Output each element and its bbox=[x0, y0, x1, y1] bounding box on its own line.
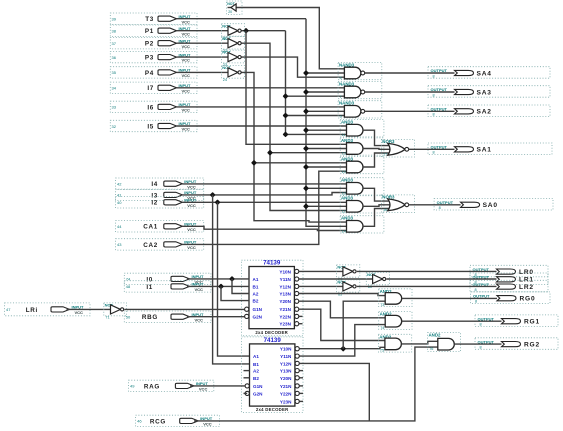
output pin SA0 bbox=[434, 199, 553, 211]
wire inverter V6 out to LR0 pin bbox=[357, 270, 497, 272]
wire I5 to AND2a top bbox=[177, 125, 347, 127]
svg-text:RG2: RG2 bbox=[524, 342, 540, 349]
wire I1 to decoder1 B1 bbox=[187, 285, 249, 287]
stub decoder2 Y22N bbox=[299, 392, 303, 394]
svg-text:Y23N: Y23N bbox=[279, 322, 291, 327]
svg-text:42: 42 bbox=[117, 182, 122, 187]
wire P1 trunk to NAND3 bottom bbox=[286, 115, 345, 117]
input pin I3 bbox=[116, 189, 204, 200]
input pin I4 bbox=[116, 178, 204, 189]
input pin I7 bbox=[110, 82, 197, 93]
output pin RG2 bbox=[475, 338, 558, 350]
svg-text:37: 37 bbox=[112, 41, 117, 46]
svg-text:11: 11 bbox=[342, 133, 346, 137]
svg-text:Y12N: Y12N bbox=[279, 284, 291, 289]
and gate B2 RG1 bbox=[379, 312, 412, 330]
junction trunk AND2d bbox=[303, 185, 309, 191]
svg-text:10: 10 bbox=[342, 191, 346, 195]
svg-text:OUTPUT: OUTPUT bbox=[473, 293, 490, 298]
svg-text:24: 24 bbox=[223, 78, 227, 82]
wire AND2d out to NOR2 top bbox=[363, 188, 389, 201]
svg-text:VCC: VCC bbox=[182, 19, 191, 24]
junction P1 at NAND2 bbox=[283, 93, 289, 99]
and gate A6 bbox=[340, 216, 384, 233]
wire decoder1 Y11N to inverter V7 bbox=[299, 278, 373, 280]
svg-text:2x4 DECODER: 2x4 DECODER bbox=[255, 330, 288, 335]
svg-text:8: 8 bbox=[475, 300, 477, 304]
svg-text:8: 8 bbox=[439, 206, 441, 210]
svg-text:CA2: CA2 bbox=[143, 242, 158, 249]
wire NAND out to SA3 pin bbox=[365, 91, 455, 93]
svg-text:47: 47 bbox=[6, 307, 11, 312]
svg-text:73: 73 bbox=[380, 303, 384, 307]
svg-text:P3: P3 bbox=[145, 55, 154, 62]
svg-text:35: 35 bbox=[112, 70, 117, 75]
svg-text:I3: I3 bbox=[151, 192, 158, 199]
input pin I2 bbox=[116, 197, 204, 208]
svg-text:B2: B2 bbox=[253, 299, 259, 304]
input pin I5 bbox=[110, 120, 197, 131]
svg-text:RAG: RAG bbox=[144, 383, 160, 390]
svg-text:SA4: SA4 bbox=[477, 70, 492, 77]
wire NAND out to SA4 pin bbox=[365, 72, 455, 74]
svg-text:LR2: LR2 bbox=[519, 284, 534, 291]
svg-text:Y22N: Y22N bbox=[280, 391, 292, 396]
svg-text:INPUT: INPUT bbox=[184, 179, 197, 184]
junction trunk AND2e bbox=[303, 203, 309, 209]
wire inverter V7 out to LR1 pin bbox=[387, 278, 497, 280]
svg-text:RG1: RG1 bbox=[524, 319, 540, 326]
output pin SA1 bbox=[428, 143, 552, 155]
trunk branch AND2b mid bbox=[306, 148, 347, 150]
svg-text:Y13N: Y13N bbox=[279, 292, 291, 297]
wire I3 to decoder B1 branch bbox=[182, 193, 346, 195]
wire decoder1 Y10N to inverter V6 bbox=[299, 270, 343, 272]
inverter V6 LR0 bbox=[337, 265, 360, 277]
svg-text:VCC: VCC bbox=[182, 108, 191, 113]
svg-text:76: 76 bbox=[429, 347, 433, 351]
wire P3 inverter out to NAND1 bottom bbox=[242, 57, 345, 77]
svg-text:VCC: VCC bbox=[182, 31, 191, 36]
svg-text:74139: 74139 bbox=[264, 337, 282, 344]
wire NOR2 out to SA0 pin bbox=[409, 204, 461, 206]
svg-text:I0: I0 bbox=[146, 276, 153, 283]
wire AND2c out to NOR1 bottom bbox=[363, 153, 389, 167]
svg-text:5: 5 bbox=[340, 76, 342, 80]
svg-text:VCC: VCC bbox=[199, 387, 208, 392]
nand gate U2 SA3 bbox=[338, 81, 382, 98]
wire AND2b out to NOR1 mid bbox=[363, 148, 391, 151]
stub decoder1 Y22N bbox=[299, 315, 303, 317]
input pin P1 bbox=[110, 25, 197, 36]
svg-text:48: 48 bbox=[126, 284, 131, 289]
input pin T3 bbox=[110, 13, 197, 24]
stub decoder2 G2N bbox=[244, 392, 248, 394]
svg-text:15: 15 bbox=[342, 170, 346, 174]
input pin P4 bbox=[110, 67, 197, 78]
wire decoder1 Y21N to AND2i top bbox=[299, 309, 385, 340]
inverter V4 for P4 bbox=[222, 65, 245, 78]
input pin I1 bbox=[124, 281, 211, 292]
svg-text:46: 46 bbox=[137, 419, 142, 424]
svg-text:VCC: VCC bbox=[203, 422, 212, 427]
trunk branch NAND3 mid bbox=[306, 110, 344, 112]
wire LRi to inverter bbox=[67, 308, 111, 310]
nand gate U3 SA2 bbox=[338, 101, 382, 118]
output pin SA2 bbox=[428, 105, 550, 117]
and gate A5 bbox=[340, 196, 384, 213]
wire I7 to NAND2 top bbox=[177, 87, 345, 89]
svg-text:16: 16 bbox=[383, 208, 387, 212]
svg-text:36: 36 bbox=[112, 55, 117, 60]
svg-text:Y22N: Y22N bbox=[279, 314, 291, 319]
wire decoder2 Y12N down to RCG line bbox=[299, 363, 369, 421]
and gate B3 RG2 bbox=[378, 334, 411, 352]
svg-text:13: 13 bbox=[342, 152, 346, 156]
svg-text:Y12N: Y12N bbox=[280, 361, 292, 366]
decoder U11 74139 lower bbox=[242, 337, 304, 413]
svg-text:SA3: SA3 bbox=[477, 89, 492, 96]
wire RAG to decoder2 G1N bbox=[190, 385, 245, 387]
svg-text:Y21N: Y21N bbox=[279, 307, 291, 312]
nand gate U1 SA4 bbox=[338, 62, 382, 79]
wire decoder2 Y10N to AND2i bottom bbox=[299, 347, 385, 348]
svg-text:20: 20 bbox=[228, 10, 232, 14]
wire I4 to AND2d top bbox=[182, 183, 346, 185]
junction I0 bbox=[229, 276, 235, 282]
wire decoder1 Y13N to AND2g top bbox=[299, 294, 385, 296]
junction trunk NAND3 bbox=[303, 108, 309, 114]
input pin RCG bbox=[136, 415, 220, 426]
wire P4 to inverter bbox=[177, 71, 229, 73]
stub decoder2 A2 bbox=[244, 370, 250, 372]
svg-text:RBG: RBG bbox=[142, 314, 158, 321]
svg-text:VCC: VCC bbox=[182, 88, 191, 93]
svg-text:Y20N: Y20N bbox=[279, 299, 291, 304]
svg-text:8: 8 bbox=[433, 93, 435, 97]
wire NAND out to SA2 pin bbox=[365, 110, 455, 112]
wire P1 trunk to NAND2 bottom bbox=[286, 95, 345, 97]
svg-text:VCC: VCC bbox=[187, 227, 196, 232]
svg-text:SA0: SA0 bbox=[483, 202, 498, 209]
svg-text:14: 14 bbox=[342, 229, 346, 233]
inverter V0 top left-pointing bbox=[227, 1, 243, 15]
svg-text:A2: A2 bbox=[253, 292, 259, 297]
wire decoder1 Y12N to inverter V8 bbox=[299, 285, 343, 287]
svg-text:Y10N: Y10N bbox=[280, 347, 292, 352]
svg-text:I6: I6 bbox=[147, 104, 154, 111]
wire top inverter output stub bbox=[228, 7, 231, 9]
nor gate N1 SA1 bbox=[381, 139, 414, 157]
svg-text:75: 75 bbox=[380, 349, 384, 353]
stub decoder2 Y13N bbox=[299, 370, 303, 372]
wire RBG to decoder1 G2N bbox=[187, 316, 245, 318]
svg-text:SA2: SA2 bbox=[477, 109, 492, 116]
input pin RBG bbox=[124, 311, 211, 322]
svg-text:38: 38 bbox=[112, 29, 117, 34]
svg-text:2x4 DECODER: 2x4 DECODER bbox=[256, 407, 289, 412]
wire CA2 to AND2c bottom bbox=[182, 171, 347, 244]
svg-text:B2: B2 bbox=[253, 376, 259, 381]
wire I2 to AND2e top bbox=[182, 201, 346, 203]
svg-text:33: 33 bbox=[112, 105, 117, 110]
wire P1 branch vertical to AND2b top bbox=[246, 31, 347, 145]
trunk branch AND2e mid bbox=[306, 205, 347, 207]
input pin CA1 bbox=[116, 221, 204, 232]
wire AND2j out to RG2 pin bbox=[454, 343, 501, 345]
trunk branch AND2a mid bbox=[306, 129, 347, 131]
and gate B4 RG2 bbox=[428, 333, 461, 352]
svg-text:VCC: VCC bbox=[187, 184, 196, 189]
svg-text:VCC: VCC bbox=[182, 73, 191, 78]
wire P2 trunk to AND2b bottom bbox=[270, 152, 347, 154]
wire P2 inverter out and trunk bbox=[242, 43, 347, 210]
output pin RG0 bbox=[471, 292, 551, 304]
and gate A2 bbox=[340, 138, 384, 155]
svg-text:I5: I5 bbox=[147, 123, 154, 130]
and gate A4 bbox=[340, 178, 384, 195]
output pin LR1 bbox=[470, 273, 548, 285]
svg-text:50: 50 bbox=[126, 315, 131, 320]
wire LRi inverter out to decoder1 G1N bbox=[124, 308, 244, 310]
svg-text:I7: I7 bbox=[147, 85, 154, 92]
wire RCG to AND2 RG2 second input bbox=[194, 347, 438, 421]
junction trunk NAND2 bbox=[303, 89, 309, 95]
output pin LR2 bbox=[470, 280, 548, 292]
junction P4 at AND2c bbox=[251, 160, 257, 166]
wire P3 to inverter bbox=[177, 56, 229, 58]
wire top inverter input from right bbox=[236, 8, 344, 69]
svg-text:Y21N: Y21N bbox=[280, 384, 292, 389]
input pin RAG bbox=[129, 380, 214, 391]
svg-text:Y10N: Y10N bbox=[279, 269, 291, 274]
svg-text:8: 8 bbox=[480, 323, 482, 327]
inverter V8 LR2 bbox=[337, 280, 360, 292]
wire I0 to decoder1 A1 bbox=[187, 278, 249, 280]
stub decoder2 Y21N bbox=[299, 385, 303, 387]
wire P1 inverter out to trunk bbox=[242, 30, 286, 32]
junction Y10N branch bbox=[340, 346, 346, 352]
wire Y10N branch up to AND2g bottom bbox=[343, 301, 385, 349]
svg-text:A2: A2 bbox=[253, 369, 259, 374]
inverter V1 for P1 bbox=[222, 24, 245, 37]
trunk T3 vertical bbox=[306, 19, 347, 227]
svg-text:34: 34 bbox=[112, 86, 117, 91]
svg-text:VCC: VCC bbox=[195, 287, 204, 292]
svg-text:CA1: CA1 bbox=[143, 224, 158, 231]
svg-text:P2: P2 bbox=[145, 41, 154, 48]
trunk branch AND2c mid bbox=[306, 166, 347, 168]
junction P1 at NAND3 bbox=[283, 113, 289, 119]
wire P2 to inverter bbox=[177, 42, 229, 44]
junction P1 branch bbox=[243, 28, 249, 34]
svg-text:Y20N: Y20N bbox=[280, 376, 292, 381]
svg-text:P4: P4 bbox=[145, 70, 154, 77]
trunk branch NAND1 mid bbox=[306, 72, 344, 74]
wire decoder2 Y11N to AND2h bottom bbox=[299, 325, 385, 357]
inverter V7 LR1 bbox=[366, 273, 389, 285]
svg-text:I4: I4 bbox=[151, 181, 158, 188]
svg-text:B1: B1 bbox=[253, 362, 259, 367]
svg-text:G2N: G2N bbox=[253, 314, 263, 319]
output pin RG1 bbox=[475, 315, 558, 327]
junction I3 bbox=[210, 192, 216, 198]
nor gate N2 SA0 bbox=[381, 195, 414, 213]
svg-text:LR0: LR0 bbox=[519, 269, 534, 276]
junction trunk AND2c bbox=[303, 164, 309, 170]
input pin I6 bbox=[110, 101, 197, 112]
and gate B1 RG0 bbox=[379, 289, 412, 307]
svg-text:SA1: SA1 bbox=[477, 147, 492, 154]
and gate A3 bbox=[340, 156, 384, 173]
trunk P1 vertical bbox=[286, 31, 347, 135]
svg-text:VCC: VCC bbox=[182, 127, 191, 132]
svg-text:8: 8 bbox=[433, 74, 435, 78]
wire AND2e out to NOR2 mid bbox=[363, 205, 391, 207]
wire decoder1 Y20N to AND2h top bbox=[299, 301, 385, 318]
junction I1 bbox=[218, 283, 224, 289]
wire I3 vertical to decoder2 B1 bbox=[213, 195, 250, 364]
svg-text:40: 40 bbox=[117, 200, 122, 205]
inverter V3 for P3 bbox=[222, 50, 245, 63]
svg-text:AND2: AND2 bbox=[429, 333, 442, 338]
svg-text:G1N: G1N bbox=[253, 384, 263, 389]
wire P4 inverter out and trunk bbox=[242, 72, 347, 222]
input pin CA2 bbox=[116, 239, 204, 250]
svg-text:49: 49 bbox=[130, 384, 135, 389]
svg-text:VCC: VCC bbox=[187, 245, 196, 250]
trunk branch NAND2 mid bbox=[306, 91, 344, 93]
svg-text:I2: I2 bbox=[151, 200, 158, 207]
svg-text:T3: T3 bbox=[145, 16, 154, 23]
wire AND2a out to NOR1 top bbox=[363, 130, 389, 145]
input pin I0 bbox=[124, 273, 211, 284]
wire AND2f out to NOR2 bottom bbox=[363, 209, 389, 227]
svg-text:G1N: G1N bbox=[253, 307, 263, 312]
output pin SA4 bbox=[428, 67, 550, 79]
wire AND2i out to AND2j bbox=[401, 341, 437, 344]
wire I6 to NAND3 top bbox=[177, 106, 345, 108]
trunk branch AND2d mid bbox=[306, 187, 347, 189]
wire CA1 to AND2f bottom bbox=[182, 226, 347, 230]
svg-text:74: 74 bbox=[380, 326, 384, 330]
junction P1 at AND2a bbox=[283, 131, 289, 137]
stub decoder2 B2 bbox=[244, 377, 250, 379]
svg-text:8: 8 bbox=[480, 346, 482, 350]
svg-text:32: 32 bbox=[112, 124, 117, 129]
svg-text:Y23N: Y23N bbox=[280, 399, 292, 404]
wire I2 vertical to decoder2 A1 bbox=[218, 202, 250, 356]
junction trunk AND2b bbox=[303, 146, 309, 152]
wire inverter V8 out to LR2 pin bbox=[357, 285, 497, 287]
inverter V2 for P2 bbox=[222, 36, 245, 49]
svg-text:74139: 74139 bbox=[263, 260, 281, 267]
wire AND2h out to RG1 pin bbox=[402, 320, 502, 322]
wire T3 to trunk bbox=[177, 18, 307, 20]
svg-text:44: 44 bbox=[117, 224, 122, 229]
svg-text:43: 43 bbox=[117, 242, 122, 247]
svg-text:Y11N: Y11N bbox=[280, 277, 292, 282]
svg-text:39: 39 bbox=[112, 17, 117, 22]
svg-text:VCC: VCC bbox=[187, 203, 196, 208]
svg-text:8: 8 bbox=[433, 113, 435, 117]
svg-text:P1: P1 bbox=[145, 28, 154, 35]
svg-text:8: 8 bbox=[475, 288, 477, 292]
and gate A1 bbox=[340, 120, 384, 137]
stub decoder1 Y23N bbox=[299, 323, 303, 325]
decoder U10 74139 upper bbox=[242, 260, 304, 336]
svg-text:A1: A1 bbox=[253, 354, 259, 359]
svg-text:VCC: VCC bbox=[75, 310, 84, 315]
wire I0 branch to decoder1 A2 bbox=[232, 279, 249, 294]
svg-text:VCC: VCC bbox=[182, 44, 191, 49]
wire I1 branch to decoder1 B2 bbox=[221, 286, 249, 300]
svg-text:VCC: VCC bbox=[182, 58, 191, 63]
stub decoder2 Y23N bbox=[299, 400, 303, 402]
svg-text:I1: I1 bbox=[146, 284, 153, 291]
svg-text:Y11N: Y11N bbox=[280, 354, 292, 359]
stub decoder2 Y20N bbox=[299, 377, 303, 379]
svg-text:71: 71 bbox=[105, 316, 109, 320]
input pin P2 bbox=[110, 38, 197, 49]
wire P1 to inverter bbox=[177, 30, 229, 32]
svg-text:B1: B1 bbox=[253, 284, 259, 289]
svg-text:RCG: RCG bbox=[150, 418, 166, 425]
junction P2 at AND2b bbox=[267, 150, 273, 156]
svg-text:Y13N: Y13N bbox=[280, 369, 292, 374]
inverter V5 LRi bbox=[104, 303, 127, 316]
junction trunk NAND1 bbox=[303, 70, 309, 76]
svg-text:17: 17 bbox=[383, 153, 387, 157]
wire P4 trunk to AND2c top bbox=[254, 162, 347, 164]
svg-text:LRi: LRi bbox=[26, 307, 38, 314]
svg-text:7: 7 bbox=[340, 95, 342, 99]
output pin SA3 bbox=[428, 86, 550, 98]
svg-text:9: 9 bbox=[340, 114, 342, 118]
svg-text:A1: A1 bbox=[253, 277, 259, 282]
svg-text:RG0: RG0 bbox=[520, 296, 536, 303]
svg-text:8: 8 bbox=[433, 151, 435, 155]
input pin LRi bbox=[5, 303, 90, 316]
svg-text:12: 12 bbox=[342, 209, 346, 213]
junction trunk AND2a bbox=[303, 127, 309, 133]
svg-text:VCC: VCC bbox=[195, 317, 204, 322]
output pin LR0 bbox=[470, 265, 548, 277]
svg-text:G2N: G2N bbox=[253, 391, 263, 396]
junction I2 bbox=[215, 199, 221, 205]
input pin P3 bbox=[110, 51, 197, 62]
wire AND2g out to RG0 pin bbox=[402, 297, 497, 299]
wire NOR1 out to SA1 pin bbox=[409, 148, 455, 150]
